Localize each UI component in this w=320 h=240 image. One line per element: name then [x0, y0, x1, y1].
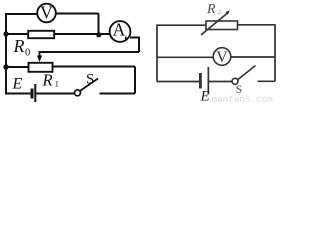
svg-text:manfen5.com: manfen5.com: [212, 94, 274, 104]
wire top-right vertical down to ammeter line: [98, 14, 100, 36]
svg-text:R: R: [206, 2, 216, 17]
wire top: left corner to rheostat: [157, 25, 206, 81]
svg-text:V: V: [216, 49, 228, 66]
voltmeter V1 (left circuit): [37, 3, 56, 23]
battery E (left): long thin plate: [34, 84, 36, 102]
svg-text:2: 2: [218, 9, 221, 16]
rheostat R1 body: [29, 63, 53, 72]
wire R0 row: resistor to ammeter: [54, 33, 110, 35]
svg-text:E: E: [12, 76, 23, 93]
wire top right segment: [56, 13, 99, 15]
wire middle row right (voltmeter to right vertical): [231, 56, 276, 58]
svg-text:1: 1: [55, 80, 59, 89]
wire middle row left (to voltmeter): [157, 56, 214, 58]
svg-text:V: V: [40, 3, 53, 23]
svg-text:E: E: [200, 89, 210, 105]
rheostat R2 body: [206, 21, 238, 30]
ammeter A (left circuit): [110, 20, 131, 42]
wire slider row (ammeter down-wire to wiper): [40, 52, 140, 56]
switch S (left): pivot circle: [75, 90, 81, 96]
wire bottom: left corner to battery: [157, 81, 199, 83]
wire bottom: switch to right vertical: [100, 93, 136, 95]
svg-text:R: R: [13, 36, 25, 56]
switch S (left): blade: [80, 79, 98, 91]
junction dot left vertical / R1 row: [3, 64, 8, 69]
resistor R0 body: [28, 31, 54, 38]
wire R1 row left: [6, 66, 28, 68]
wire top: rheostat to right corner, down right side: [238, 25, 276, 82]
svg-text:A: A: [113, 20, 126, 40]
wire lower-right vertical: [134, 67, 136, 94]
svg-text:S: S: [86, 71, 94, 87]
svg-text:R: R: [42, 71, 53, 90]
wire bottom: battery to switch: [36, 93, 75, 95]
switch S (right): pivot circle: [232, 78, 238, 84]
rheostat R1 wiper arrow: [37, 56, 42, 63]
wire bottom: switch to right corner: [258, 80, 276, 82]
battery E (left): short thick plate: [31, 89, 34, 99]
switch S (right): blade: [238, 66, 256, 80]
wire ammeter right stub and down: [130, 38, 139, 53]
wire R1 row right to lower-right vertical: [53, 66, 136, 68]
battery E (right): short thick plate: [199, 73, 202, 89]
wire R0 row: left vertical to resistor: [6, 33, 28, 35]
wire left vertical: [5, 13, 7, 95]
rheostat R2 diagonal arrow: [201, 13, 227, 35]
junction dot at top-right of R0 row: [96, 32, 101, 37]
voltmeter V2 (right circuit): [213, 48, 231, 66]
wire top left segment: [5, 13, 38, 15]
wire bottom: corner to battery: [6, 93, 31, 95]
junction dot left vertical / R0 row: [3, 31, 8, 36]
wire bottom: battery to switch: [209, 81, 232, 83]
svg-text:0: 0: [25, 48, 30, 59]
battery E (right): long thin plate: [208, 67, 210, 95]
